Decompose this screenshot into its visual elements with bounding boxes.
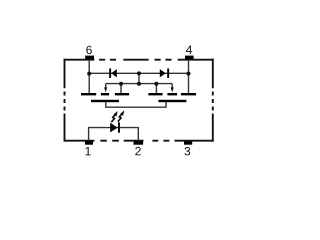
- pin 2 pad: [134, 141, 144, 144]
- wire: center riser between diode row and photodiode line: [138, 73, 140, 83]
- MOSFET Q2 source bar: [148, 93, 162, 95]
- pin 1 label: [85, 147, 90, 155]
- wire: diode row horizontal: [89, 72, 188, 74]
- arrow: gate drive arrow right: [171, 84, 174, 93]
- wire: LED loop (pin1 up, across, down to pin2): [89, 128, 139, 141]
- diode D1 (left, cathode left): [109, 69, 117, 78]
- pin 4 label: [186, 46, 192, 54]
- package outline (dash-dot border): [64, 59, 214, 142]
- pin 6 pad: [85, 56, 94, 60]
- pin 6 label: [86, 46, 91, 54]
- MOSFET Q2 drain bar: [181, 93, 196, 95]
- wire: photodiode array line: [106, 83, 173, 85]
- MOSFET Q1 drain bar: [81, 93, 96, 95]
- MOSFET Q1 body bar: [101, 93, 109, 95]
- light emission arrow 2: [118, 110, 124, 121]
- LED (anode left, pointing right): [110, 122, 120, 132]
- pin 4 pad: [185, 56, 194, 60]
- node: junction dot center / diode row: [137, 71, 141, 75]
- node: junction dot pin4 lead / diode row: [187, 72, 191, 76]
- node: junction dot center on photodiode line: [137, 82, 141, 86]
- light emission arrow 1: [111, 111, 117, 122]
- pin 3 label: [185, 147, 191, 155]
- wire: drop to Q2 body bar: [155, 84, 157, 94]
- MOSFET Q2 body bar: [167, 93, 177, 95]
- MOSFET Q2 gate bar: [158, 100, 186, 102]
- node: junction dot left on photodiode line: [119, 82, 123, 86]
- node: junction dot pin6 lead / diode row: [87, 72, 91, 76]
- wire: pin 4 lead down to Q2 drain: [188, 60, 190, 94]
- arrow: gate drive arrow left: [104, 84, 107, 93]
- node: junction dot right on photodiode line: [154, 82, 158, 86]
- pin 1 pad: [85, 141, 93, 144]
- pin 2 label: [135, 147, 140, 155]
- wire: pin 6 lead down to Q1 drain: [88, 60, 90, 94]
- wire: drop to Q1 body bar: [120, 84, 122, 94]
- diode D2 (right, cathode right): [160, 69, 169, 78]
- MOSFET Q1 source bar: [115, 93, 129, 95]
- wire: gate-to-gate connector: [106, 102, 166, 107]
- pin 3 pad: [184, 141, 192, 144]
- MOSFET Q1 gate bar: [91, 100, 119, 102]
